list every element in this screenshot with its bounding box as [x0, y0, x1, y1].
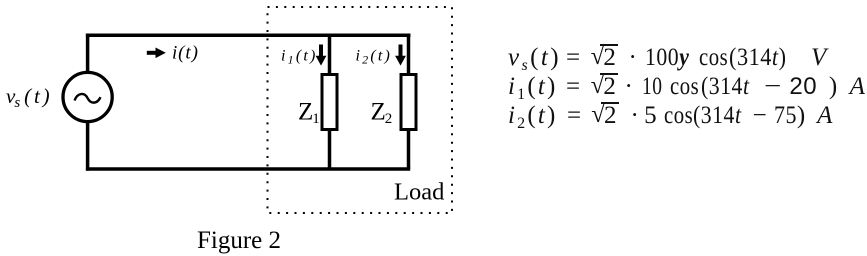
impedance Z2	[401, 75, 416, 130]
svg-text:Z1: Z1	[298, 99, 320, 128]
wire Z2 branch upper	[407, 34, 411, 75]
wire left upper vertical	[86, 34, 90, 73]
svg-text:i2(t): i2(t)	[356, 48, 393, 67]
load box (dotted outline)	[268, 7, 453, 213]
equation i2(t)	[508, 102, 833, 133]
svg-text:Load: Load	[394, 179, 444, 206]
svg-text:i1(t): i1(t)	[281, 48, 318, 67]
svg-text:Z2: Z2	[371, 99, 393, 128]
current arrow i(t)	[147, 48, 166, 59]
wire Z1 branch upper	[328, 34, 332, 75]
wire left lower vertical	[86, 122, 90, 171]
wire Z2 branch lower	[407, 130, 411, 170]
wire top horizontal	[86, 34, 411, 38]
svg-text:Figure 2: Figure 2	[197, 227, 281, 254]
wire Z1 branch lower	[328, 130, 332, 170]
equation i1(t)	[508, 73, 865, 104]
impedance Z1	[322, 75, 337, 130]
svg-text:vs(t): vs(t)	[6, 84, 52, 111]
ac source VS	[63, 72, 112, 121]
equation vs(t)	[508, 44, 827, 75]
wire bottom horizontal	[86, 167, 410, 171]
current arrow i2	[395, 45, 406, 66]
current arrow i1	[316, 45, 327, 66]
svg-text:i(t): i(t)	[172, 43, 199, 64]
